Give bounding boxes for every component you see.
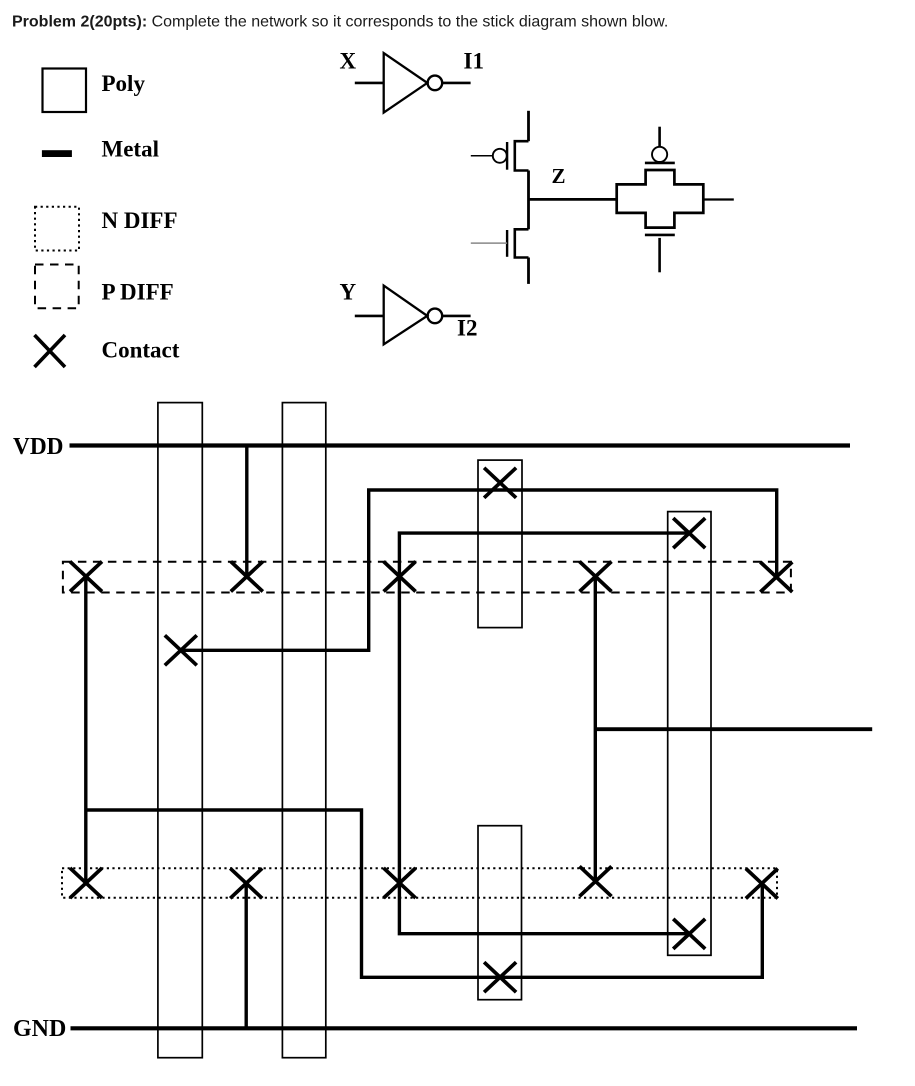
transmission gate T1 nmos gate wire (658, 238, 661, 272)
contact metal-poly A (165, 635, 197, 665)
contact pdiff-3 (384, 562, 416, 592)
contact ndiff-3 (384, 868, 416, 898)
contact poly P5 bottom (484, 962, 516, 992)
contact ndiff-5 (746, 869, 778, 899)
svg-text:N DIFF: N DIFF (102, 208, 178, 233)
svg-text:GND: GND (13, 1016, 66, 1042)
inverter I2 bubble (428, 309, 443, 324)
poly strap P3 (478, 460, 522, 627)
legend N-diff swatch (35, 207, 79, 251)
VDD rail (70, 443, 851, 447)
poly column P1 (158, 403, 202, 1058)
contact pdiff-4 (580, 562, 612, 592)
contact ndiff-4 (580, 866, 612, 896)
N-diff band (62, 868, 777, 897)
contact ndiff-2 (230, 868, 262, 898)
wire ndiff contact to GND (244, 883, 247, 1028)
nmos Q2 gate bar (506, 230, 508, 257)
wire Q1 drain to node Z (527, 171, 530, 230)
svg-text:Y: Y (340, 280, 357, 305)
inverter I1 triangle (384, 53, 428, 113)
transmission gate T1 pmos gate bar (645, 162, 675, 165)
svg-text:VDD: VDD (13, 434, 64, 460)
svg-text:Problem 2(20pts): Complete the: Problem 2(20pts): Complete the network s… (12, 14, 668, 31)
svg-text:Poly: Poly (102, 71, 146, 96)
inverter I1 output wire (442, 82, 470, 85)
pmos Q1 gate bubble (493, 149, 507, 163)
node Z wire (529, 198, 617, 201)
P-diff band (63, 562, 791, 593)
inverter I2 input wire (355, 315, 384, 318)
poly column P4 (668, 512, 711, 956)
contact poly P3 top (484, 468, 516, 498)
pmos Q1 drain top wire (527, 111, 530, 141)
wire output: horizontal to right edge (595, 727, 872, 731)
svg-text:I2: I2 (457, 316, 477, 341)
inverter I1 bubble (428, 76, 443, 91)
legend poly swatch (43, 69, 87, 113)
transmission gate T1 pmos gate wire (658, 127, 661, 147)
wire net1 tee: right-down-right-up to ndiff right contact (86, 810, 763, 977)
inverter I1 input wire (355, 82, 384, 85)
transmission gate T1 cross body (617, 170, 704, 228)
contact poly P4 top (673, 518, 705, 548)
contact pdiff-1 (70, 562, 102, 592)
transmission gate T1 nmos gate bar (645, 234, 675, 237)
nmos Q2 source/drain stubs and channel (515, 229, 529, 257)
svg-text:Z: Z (552, 164, 566, 188)
svg-text:Contact: Contact (102, 338, 180, 363)
contact pdiff-2 (231, 562, 263, 592)
legend P-diff swatch (35, 265, 79, 309)
inverter I2 output wire (442, 315, 470, 318)
pmos Q1 gate bar (506, 142, 508, 170)
pmos Q1 source/drain stubs and channel (515, 141, 529, 170)
legend contact swatch (35, 335, 66, 367)
inverter I2 triangle (384, 286, 428, 345)
wire net4: pdiff mid to ndiff mid vertical (594, 577, 597, 882)
svg-text:P DIFF: P DIFF (102, 280, 174, 305)
wire net1: pdiff left contact down to ndiff left contact (84, 577, 87, 884)
contact poly P4 bottom (673, 919, 705, 949)
transmission gate T1 pmos bubble (652, 147, 667, 162)
svg-text:Metal: Metal (102, 137, 159, 162)
legend metal swatch (42, 150, 72, 157)
transmission gate T1 right lead wire (703, 198, 734, 200)
poly column P2 (282, 403, 325, 1058)
svg-text:I1: I1 (464, 48, 484, 73)
wire net3 upper: poly P4 contact to left corner (399, 533, 689, 934)
wire VDD to pdiff contact (245, 448, 248, 577)
pmos Q1 gate lead (471, 155, 493, 157)
nmos Q2 source bottom wire (527, 258, 530, 284)
svg-text:X: X (340, 48, 357, 73)
contact pdiff-5 (760, 562, 792, 592)
wire net2: contact right-up-right-down to pdiff right (181, 490, 777, 650)
contact ndiff-1 (70, 868, 102, 898)
nmos Q2 gate lead (471, 242, 507, 244)
GND rail (71, 1026, 858, 1030)
poly strap P5 (478, 826, 522, 1000)
